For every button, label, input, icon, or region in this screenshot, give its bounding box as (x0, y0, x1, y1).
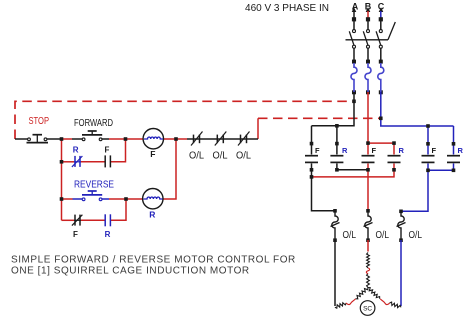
svg-text:F: F (105, 145, 110, 154)
svg-text:O/L: O/L (213, 151, 228, 162)
svg-text:F: F (150, 149, 155, 159)
svg-text:ONE [1] SQUIRREL CAGE INDUCTIO: ONE [1] SQUIRREL CAGE INDUCTION MOTOR (11, 266, 250, 277)
svg-text:O/L: O/L (236, 151, 251, 162)
svg-text:O/L: O/L (343, 230, 357, 241)
svg-text:R: R (458, 146, 464, 155)
svg-text:R: R (73, 145, 79, 154)
svg-text:SC: SC (363, 306, 372, 313)
svg-text:460 V 3 PHASE IN: 460 V 3 PHASE IN (245, 3, 329, 14)
svg-text:O/L: O/L (376, 230, 390, 241)
svg-text:R: R (342, 146, 348, 155)
svg-text:STOP: STOP (29, 115, 50, 127)
svg-text:R: R (149, 210, 155, 220)
svg-text:O/L: O/L (409, 230, 423, 241)
svg-text:FORWARD: FORWARD (74, 118, 113, 129)
svg-text:SIMPLE FORWARD / REVERSE MOTOR: SIMPLE FORWARD / REVERSE MOTOR CONTROL F… (11, 254, 296, 265)
svg-text:F: F (372, 146, 377, 155)
svg-text:R: R (105, 230, 111, 239)
svg-text:F: F (432, 146, 437, 155)
svg-text:O/L: O/L (189, 151, 204, 162)
svg-text:R: R (399, 146, 405, 155)
svg-text:F: F (73, 230, 78, 239)
svg-text:REVERSE: REVERSE (74, 180, 114, 191)
svg-text:F: F (315, 146, 320, 155)
